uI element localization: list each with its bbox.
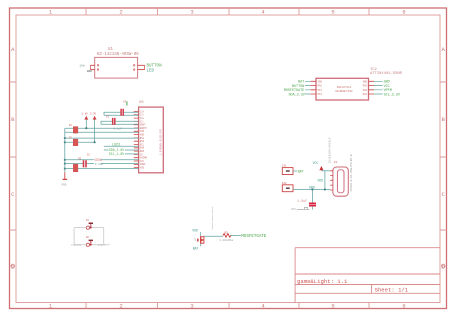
MCU IC2 inner center texts <box>335 86 353 93</box>
svg-text:U5: U5 <box>139 101 144 105</box>
junction rail VDDA row <box>64 159 66 161</box>
MCU IC2 inner pin names right <box>363 80 368 96</box>
svg-text:VCC: VCC <box>291 208 296 211</box>
switch S2 contact dot <box>90 243 92 245</box>
switch S2 actuator stem <box>90 241 92 243</box>
svg-text:PA6: PA6 <box>318 85 323 88</box>
switch S1 actuator stem <box>90 224 92 226</box>
svg-text:R2: R2 <box>225 231 229 234</box>
svg-text:1.8V: 1.8V <box>82 113 89 116</box>
switch S1 actuator bar <box>89 223 93 225</box>
resistor R5 <box>73 164 78 172</box>
OLED connector U5 pin stubs <box>134 112 139 168</box>
svg-text:VDD: VDD <box>192 229 198 233</box>
wire 1V8 rail down <box>85 120 87 129</box>
switch S1 contact dot <box>90 226 92 228</box>
frame row ticks left <box>10 82 17 230</box>
svg-text:BUTTON: BUTTON <box>147 64 163 68</box>
wire SDA row <box>104 149 139 151</box>
svg-text:LED: LED <box>147 69 155 73</box>
frame column numbers bottom <box>49 303 406 310</box>
svg-text:C3: C3 <box>106 115 110 118</box>
frame hole mark left <box>11 264 15 268</box>
svg-text:EVQP7: EVQP7 <box>98 244 106 247</box>
frame column numbers top <box>49 9 406 16</box>
junction rail cap row <box>64 163 66 165</box>
svg-text:BAT: BAT <box>193 246 199 250</box>
wire SCL row <box>125 153 139 155</box>
junction rail bottom row <box>64 168 66 170</box>
svg-text:1.00kOhm: 1.00kOhm <box>219 238 233 242</box>
ground symbol <box>63 178 68 180</box>
USB connector X1 body <box>333 167 348 196</box>
wire VCC to VBUS pin <box>321 170 330 172</box>
svg-text:VDD: VDD <box>317 179 323 183</box>
frame row letters right <box>442 46 446 271</box>
connector U1 body <box>95 57 138 78</box>
supply +3V3 arrow <box>93 116 97 120</box>
svg-text:Sheet: 1/1: Sheet: 1/1 <box>375 287 409 294</box>
frame row letters left <box>11 46 15 271</box>
MCU IC2 right pin stubs <box>369 81 375 94</box>
svg-text:2: 2 <box>119 303 122 310</box>
switch S2 contact circle <box>86 243 89 246</box>
wire bottom row <box>65 168 139 170</box>
supply VCC arrow <box>319 166 323 170</box>
wire R6 to net label <box>231 234 241 236</box>
switch loop gray wires <box>74 228 109 245</box>
svg-text:SDA_3.3V: SDA_3.3V <box>289 93 306 97</box>
svg-text:BAT: BAT <box>298 170 304 174</box>
svg-text:VCC: VCC <box>313 161 319 165</box>
svg-text:MOSFET-NSMALLSOT23: MOSFET-NSMALLSOT23 <box>211 206 214 229</box>
OLED connector U5 pin name texts <box>140 110 148 169</box>
svg-text:VDDA: VDDA <box>94 158 102 162</box>
svg-text:SCL_1.8V: SCL_1.8V <box>109 152 124 156</box>
svg-text:VSS: VSS <box>140 167 145 170</box>
frame hole mark right <box>441 264 445 268</box>
MCU IC2 left pin wires <box>305 81 311 94</box>
solder jumper SJ2 body <box>282 185 293 192</box>
connector U1 pin 4 <box>138 69 145 71</box>
wire row c <box>65 137 139 139</box>
frame row ticks right <box>440 82 447 230</box>
svg-text:PA3: PA3 <box>363 85 368 88</box>
switch S2 actuator bar <box>89 240 93 242</box>
svg-text:game&Light: 1.1: game&Light: 1.1 <box>297 278 348 285</box>
svg-text:PA0/EXTCLK: PA0/EXTCLK <box>337 86 352 89</box>
solder jumper SJ1 body <box>282 168 293 175</box>
resistor R1 <box>73 127 78 134</box>
wire VBAT row <box>65 127 139 129</box>
frame column ticks top <box>86 8 369 15</box>
svg-text:5: 5 <box>331 303 334 310</box>
wire 3V3 rail down <box>94 120 96 143</box>
wire Q1 source <box>200 244 202 247</box>
solder jumper SJ1 pin wire <box>293 170 297 172</box>
capacitor C7 bottom lead <box>311 206 313 209</box>
svg-text:ZX62R-B-5P-USB-MICRO-B: ZX62R-B-5P-USB-MICRO-B <box>350 154 353 191</box>
svg-text:C4: C4 <box>123 101 127 104</box>
capacitor C7 lead <box>311 190 313 203</box>
resistor R2 <box>73 139 78 146</box>
GND lead <box>64 172 66 179</box>
junction rail row c <box>64 137 66 139</box>
MCU IC2 left pin stubs <box>311 81 316 94</box>
supply +1V8 arrow <box>84 116 88 120</box>
capacitor C7 plates <box>309 203 316 205</box>
svg-text:VDD: VDD <box>318 80 323 83</box>
connector U1 right pin tie wire <box>144 65 146 69</box>
junction VCC rail <box>324 189 326 191</box>
svg-text:GND: GND <box>363 80 368 83</box>
wire C1+ loop <box>104 112 139 115</box>
svg-text:TS1187A: TS1187A <box>71 244 82 247</box>
MCU IC2 inner pin names left <box>318 80 323 96</box>
frame column ticks bottom <box>86 303 369 309</box>
gray ground bracket C7 <box>297 207 310 209</box>
connector U1 inner pin dots right <box>133 65 135 67</box>
svg-text:3.3V: 3.3V <box>90 113 97 116</box>
svg-text:PA1: PA1 <box>318 93 323 96</box>
transistor Q1 arrow dot <box>201 239 203 241</box>
svg-text:HW/RESET/PA2: HW/RESET/PA2 <box>335 90 353 93</box>
MCU IC2 right pin wires <box>374 81 383 94</box>
capacitor C4 plates <box>121 109 123 116</box>
solder jumper SJ1 bar <box>286 170 290 172</box>
wire Q1 gate to R6 <box>204 235 223 237</box>
svg-text:1.0uF: 1.0uF <box>297 199 307 203</box>
USB connector X1 inner slot <box>337 170 344 193</box>
svg-text:10118194-0001LF: 10118194-0001LF <box>329 137 332 163</box>
solder jumper SJ2 bar <box>286 187 290 189</box>
svg-text:0.1uF: 0.1uF <box>95 163 104 166</box>
connector U1 inner pin dots left <box>97 65 99 67</box>
svg-text:KZ-1421SN-ARSW-06: KZ-1421SN-ARSW-06 <box>97 53 139 57</box>
wire GND row to USB <box>293 189 330 191</box>
wire C2+ loop <box>101 121 139 124</box>
title block <box>295 248 440 303</box>
svg-text:SCL_3.3V: SCL_3.3V <box>384 93 401 97</box>
MCU IC2 body <box>316 78 369 100</box>
svg-text:MOSFETGATE: MOSFETGATE <box>241 235 267 239</box>
svg-text:PA2: PA2 <box>363 93 368 96</box>
wire row b <box>65 131 139 133</box>
svg-text:1V8: 1V8 <box>79 65 84 68</box>
svg-text:PA0: PA0 <box>363 89 368 92</box>
junction C7 <box>312 189 314 191</box>
svg-text:5: 5 <box>331 9 334 16</box>
connector U1 left pin tie wire <box>89 65 91 69</box>
svg-text:GND: GND <box>61 183 66 186</box>
switch S1 contact circle <box>86 226 89 229</box>
capacitor C3 plates <box>113 118 115 125</box>
svg-text:PA7: PA7 <box>318 89 323 92</box>
wire LED1 row <box>104 145 139 147</box>
connector U1 pin 2 <box>90 69 94 71</box>
GND rail <box>64 128 66 172</box>
capacitor C5 plates <box>84 160 87 167</box>
svg-text:1.54BSWV-OLED-SPI: 1.54BSWV-OLED-SPI <box>160 128 163 155</box>
junction 3V3 row d <box>94 141 96 143</box>
OLED connector U5 body <box>139 107 164 173</box>
wire row d <box>65 141 95 143</box>
svg-text:3: 3 <box>190 9 193 16</box>
USB connector X1 pin stubs <box>330 171 333 190</box>
svg-text:LED1: LED1 <box>112 144 120 148</box>
wire VBUS rail down <box>324 171 326 190</box>
junction 1V8 on VBAT row <box>85 127 87 129</box>
junction rail row d <box>64 141 66 143</box>
wire Q1 drain <box>200 232 202 236</box>
svg-text:2: 2 <box>119 9 122 16</box>
svg-text:6: 6 <box>402 9 405 16</box>
svg-text:ATTINY402-SSNR: ATTINY402-SSNR <box>370 72 403 76</box>
svg-text:X1: X1 <box>334 161 338 164</box>
resistor R6 zigzag <box>223 234 231 238</box>
svg-text:6: 6 <box>402 303 405 310</box>
capacitor C4 green mark <box>126 101 128 105</box>
wire cap C5 row <box>65 163 139 165</box>
connector U1 pin 3 <box>138 64 145 66</box>
connector U1 pin 1 <box>90 64 94 66</box>
wire VDDA row <box>65 159 139 161</box>
svg-text:3: 3 <box>190 303 193 310</box>
svg-text:U1: U1 <box>108 48 113 52</box>
svg-text:GND: GND <box>87 70 92 73</box>
transistor Q1 <box>198 236 204 244</box>
